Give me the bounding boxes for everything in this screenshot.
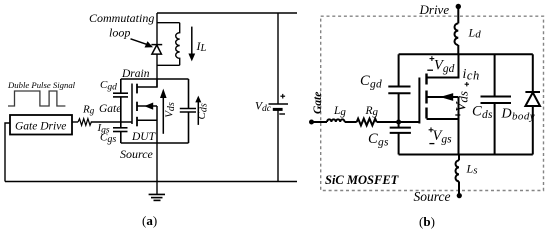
- ground: [149, 194, 165, 200]
- wire right vertical to Vdc: [277, 13, 279, 104]
- diode Dbody: [525, 54, 540, 154]
- svg-text:Ls: Ls: [466, 162, 478, 177]
- svg-text:(b): (b): [419, 214, 435, 229]
- battery Vdc: [269, 104, 289, 109]
- body tap with arrow: [137, 105, 157, 107]
- current arrow IL: [188, 27, 195, 62]
- svg-text:Source: Source: [414, 189, 451, 204]
- wire bottom rail (b): [399, 154, 533, 156]
- svg-text:Cgs: Cgs: [100, 132, 116, 146]
- source tap: [137, 119, 157, 121]
- wire Ld to rail: [457, 45, 459, 54]
- diode D (commutating loop): [151, 45, 162, 55]
- svg-text:Vds: Vds: [164, 102, 178, 118]
- inductor L (commutating loop): [176, 23, 180, 66]
- svg-text:Gate: Gate: [99, 103, 121, 115]
- wire source to ground: [156, 143, 158, 194]
- wire gate drive left leg: [5, 123, 10, 182]
- gate terminal node: [309, 120, 314, 125]
- label - (Vgs): [429, 143, 434, 145]
- node Source terminal: [457, 193, 462, 198]
- wire Rg to gate node: [377, 121, 420, 123]
- wire commutating loop bottom: [157, 64, 180, 66]
- svg-text:Rg: Rg: [365, 105, 379, 118]
- source vertical: [156, 106, 158, 143]
- wire drive to Ld: [457, 6, 459, 24]
- capacitor Cds (a): [180, 79, 196, 143]
- label - (Vds b): [455, 114, 460, 116]
- wire gate terminal to Lg: [312, 121, 328, 123]
- svg-text:ich: ich: [463, 67, 480, 83]
- label - (Vgd): [427, 69, 433, 71]
- label + (Vgd): [430, 56, 435, 61]
- svg-text:Drain: Drain: [121, 68, 150, 80]
- voltage arrow Vds (a): [160, 89, 167, 134]
- label - (Vdc): [279, 113, 285, 115]
- node gate junction: [396, 120, 401, 125]
- svg-text:Drive: Drive: [419, 2, 450, 17]
- svg-text:(a): (a): [142, 213, 157, 228]
- capacitor Cgd (a): [113, 79, 128, 122]
- svg-text:Duble Pulse Signal: Duble Pulse Signal: [7, 80, 76, 90]
- body arrow (a): [144, 103, 153, 110]
- double pulse waveform: [8, 91, 65, 106]
- label + (Vds b): [465, 82, 469, 86]
- wire top rail (b): [399, 53, 533, 55]
- wire top rail: [157, 12, 297, 14]
- current arrow Cds (a): [195, 96, 201, 125]
- body tap: [427, 96, 459, 98]
- drain tap: [427, 54, 459, 77]
- capacitor Cgs (b): [390, 122, 411, 155]
- resistor Rg (b): [357, 119, 377, 126]
- svg-text:Gate Drive: Gate Drive: [15, 121, 66, 133]
- MOSFET DUT (a): [132, 79, 157, 143]
- inductor Lg: [327, 119, 345, 122]
- capacitor Cgs (a): [113, 122, 128, 143]
- channel dashes: [136, 84, 138, 94]
- source tap: [427, 118, 459, 120]
- annotation arrow (commutating loop): [131, 39, 154, 48]
- MOSFET (b): [419, 54, 458, 154]
- capacitor Cds (b): [481, 54, 512, 154]
- gate drive box: [10, 115, 72, 135]
- resistor Rg (a): [78, 119, 91, 126]
- wire bottom rail: [5, 181, 297, 183]
- gate bar: [418, 78, 420, 124]
- channel dashes: [425, 74, 427, 85]
- source vertical: [458, 97, 460, 155]
- label + (Vgs): [429, 127, 434, 132]
- svg-text:DUT: DUT: [131, 131, 157, 143]
- svg-text:Rg: Rg: [82, 104, 95, 116]
- svg-text:Gate: Gate: [312, 92, 324, 114]
- capacitor Cgd (b): [388, 54, 410, 122]
- node Drive terminal: [456, 4, 461, 9]
- wire gate (a): [72, 121, 78, 123]
- wire commutating loop top: [157, 22, 180, 24]
- svg-text:Cds: Cds: [196, 103, 210, 119]
- label + (Vdc): [280, 94, 285, 99]
- inductor Ld: [455, 23, 459, 45]
- gate bar: [131, 84, 133, 125]
- svg-text:Ld: Ld: [468, 26, 482, 41]
- wire DUT bottom: [121, 142, 189, 144]
- svg-text:Commutating: Commutating: [89, 11, 154, 25]
- wire Lg to Rg: [345, 121, 357, 123]
- svg-text:loop: loop: [109, 26, 130, 40]
- svg-text:Vds: Vds: [454, 91, 471, 112]
- svg-text:SiC MOSFET: SiC MOSFET: [325, 173, 400, 187]
- wire drain node line: [121, 78, 189, 80]
- body arrow (b): [440, 93, 453, 101]
- wire left vertical (commutating branch): [156, 13, 158, 87]
- inductor Ls: [456, 155, 459, 196]
- dashed box SiC MOSFET: [321, 16, 544, 190]
- svg-text:Source: Source: [120, 147, 154, 161]
- svg-text:Lg: Lg: [333, 105, 346, 118]
- drain tap: [137, 79, 157, 87]
